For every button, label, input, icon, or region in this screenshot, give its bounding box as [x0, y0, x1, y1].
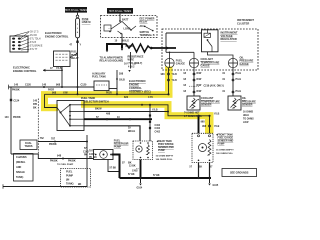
highlight fuel-gauge circuit yellow band S1 — [41, 91, 173, 98]
svg-text:P/LG: P/LG — [236, 72, 242, 75]
relay right contact — [145, 27, 153, 31]
svg-text:BK: BK — [94, 157, 98, 159]
svg-text:298: 298 — [119, 73, 124, 76]
svg-text:Y/W: Y/W — [63, 92, 68, 95]
svg-text:PK/BK: PK/BK — [13, 116, 21, 119]
svg-text:TANK): TANK) — [16, 176, 23, 179]
wire pump bottom loop — [108, 160, 119, 172]
svg-text:PUMP: PUMP — [158, 149, 165, 152]
svg-text:C402: C402 — [155, 127, 161, 130]
power label HOT AT ALL TIMES (right) — [107, 8, 133, 14]
wire stub bus to S1 — [77, 87, 79, 94]
highlight yellow band S2 selector switch output — [81, 101, 172, 108]
svg-text:TO FUEL PUMP: TO FUEL PUMP — [57, 164, 74, 166]
svg-text:RELAY (GASOLINE): RELAY (GASOLINE) — [100, 60, 124, 63]
label box DUAL TANKS — [20, 140, 37, 150]
svg-text:PK/BK: PK/BK — [49, 143, 57, 146]
svg-text:C124: C124 — [13, 99, 19, 102]
ground G105 — [209, 178, 211, 183]
svg-text:C402: C402 — [132, 170, 138, 173]
svg-text:140: 140 — [33, 99, 38, 102]
svg-text:968: 968 — [56, 84, 61, 87]
svg-text:SINGLE: SINGLE — [16, 171, 25, 174]
svg-text:SEE GROUNDS: SEE GROUNDS — [230, 172, 249, 175]
svg-text:BK: BK — [128, 161, 132, 164]
svg-text:822: 822 — [124, 96, 129, 99]
svg-text:A16: A16 — [140, 25, 145, 28]
svg-text:ENGINE CONTROL: ENGINE CONTROL — [45, 35, 69, 39]
see grounds box — [222, 169, 257, 177]
svg-text:TERMINAL B: TERMINAL B — [140, 34, 155, 37]
svg-text:O/LB: O/LB — [119, 79, 125, 82]
fuse link M body — [76, 18, 80, 38]
svg-text:787: 787 — [51, 137, 56, 140]
svg-text:RELAY: RELAY — [71, 57, 79, 60]
svg-text:16 OHMS EMPTY: 16 OHMS EMPTY — [156, 156, 174, 158]
bold rear sender ground drop — [140, 160, 142, 179]
svg-text:948: 948 — [57, 154, 62, 157]
rear tank sender dashed box — [133, 141, 153, 160]
svg-text:74 OHMS HOT: 74 OHMS HOT — [184, 111, 200, 114]
svg-text:BK/W: BK/W — [95, 108, 102, 111]
svg-text:GAUGE: GAUGE — [240, 63, 250, 66]
wire fuel gauge to yellow circuit — [168, 68, 170, 95]
wire to EEC assembly with arrow — [130, 52, 132, 69]
fuel tank selector switch box — [57, 101, 84, 131]
bold wire yellow junction to front sender — [198, 116, 200, 134]
svg-text:ENGINE CONTROL: ENGINE CONTROL — [13, 69, 37, 73]
svg-text:ENGINE: ENGINE — [129, 83, 139, 87]
svg-text:C402: C402 — [155, 124, 161, 127]
bold ground bus — [120, 177, 212, 179]
svg-text:R/W: R/W — [197, 78, 202, 81]
label REAR TANK FUEL GAUGE SENDER AND PUMP — [157, 140, 159, 142]
wire A dual tanks to pump — [38, 141, 87, 143]
fuel gauge — [165, 58, 174, 67]
svg-text:PUMP: PUMP — [66, 175, 73, 178]
wire 47 to EEC with arrow — [43, 69, 62, 71]
wire drop S2 to rear sender right terminal — [149, 105, 151, 141]
resistance wire bold zigzag — [122, 44, 150, 52]
svg-text:PUMP: PUMP — [114, 146, 122, 149]
svg-text:Y/LB: Y/LB — [172, 74, 178, 76]
coolant temperature sender box — [187, 96, 200, 110]
svg-text:13 BK: 13 BK — [129, 165, 136, 167]
svg-text:16 OHMS EMPTY: 16 OHMS EMPTY — [216, 150, 234, 152]
svg-text:C120: C120 — [25, 84, 31, 87]
svg-text:BK: BK — [78, 184, 82, 186]
label FRONT TANK FUEL GAUGE SENDER AND PUMP — [216, 134, 218, 136]
bus wire 140 P/OR — [9, 86, 95, 88]
svg-text:GAUGE: GAUGE — [176, 63, 186, 66]
svg-text:LOAD: LOAD — [124, 28, 131, 31]
svg-text:R/W: R/W — [197, 72, 202, 75]
svg-text:REGULATOR: REGULATOR — [221, 37, 237, 41]
svg-text:P/OR: P/OR — [106, 93, 112, 95]
svg-text:BK/LG: BK/LG — [128, 131, 135, 133]
fuel pump relay switch contact — [70, 54, 77, 58]
instrument voltage regulator box — [202, 30, 219, 52]
bold branch to alarm power relay — [107, 44, 122, 50]
svg-text:57 BK: 57 BK — [153, 175, 160, 177]
svg-text:ASSEMBLY (EEC): ASSEMBLY (EEC) — [129, 89, 151, 93]
svg-text:LINK M: LINK M — [82, 21, 91, 24]
svg-text:TANK): TANK) — [66, 183, 74, 186]
front tank sender dashed box — [192, 133, 213, 162]
svg-text:GAUGE: GAUGE — [201, 64, 211, 67]
wire aux box to pump feed vertical — [109, 88, 117, 90]
wire left leg down to switch — [45, 94, 58, 107]
svg-text:Y/LB: Y/LB — [56, 67, 62, 70]
svg-text:ELECTRONIC: ELECTRONIC — [13, 65, 30, 69]
svg-text:FUEL: FUEL — [71, 52, 78, 54]
selector switch contacts — [69, 104, 71, 126]
svg-text:C402: C402 — [89, 153, 95, 156]
wire yellow vertical to front sender — [209, 116, 211, 134]
svg-text:LB: LB — [133, 62, 136, 65]
highlight yellow vertical to front tank sender — [205, 112, 214, 133]
wire dual tanks option drop — [37, 99, 39, 155]
svg-text:TANKS: TANKS — [24, 145, 32, 148]
svg-text:Y/LB: Y/LB — [214, 126, 220, 128]
svg-text:160 OHMS FULL: 160 OHMS FULL — [216, 153, 234, 155]
relay coil box — [104, 25, 111, 31]
wire relay output down — [121, 34, 123, 45]
wire coolant gauge to sender — [193, 68, 195, 96]
long vertical wire to ground bus — [86, 135, 88, 187]
svg-text:STL TT: STL TT — [30, 49, 38, 51]
svg-text:BATT: BATT — [122, 18, 129, 21]
svg-text:C143: C143 — [83, 150, 89, 153]
svg-text:57 BK: 57 BK — [128, 174, 135, 176]
svg-text:4 16 2: 4 16 2 — [128, 66, 135, 69]
wire bottom-left horizontal — [11, 154, 94, 159]
wire oil gauge to sender — [232, 68, 234, 96]
svg-text:PK/BK: PK/BK — [12, 88, 20, 91]
svg-text:HOT AT ALL TIMES: HOT AT ALL TIMES — [65, 8, 88, 12]
highlight yellow left leg to selector switch — [41, 91, 48, 108]
bold wire to fuel gauge with flow arrows — [150, 47, 176, 49]
EEC power relay dashed box — [101, 16, 158, 38]
highlight yellow leg from fuel gauge — [165, 67, 173, 96]
svg-text:BK/LG: BK/LG — [122, 40, 130, 43]
wire row to rear sender left terminal — [84, 126, 140, 141]
svg-text:R/W: R/W — [197, 84, 202, 87]
svg-text:TO OHMS: TO OHMS — [243, 118, 254, 120]
svg-text:ELECTRONIC: ELECTRONIC — [129, 79, 146, 83]
svg-text:160 OHMS FULL: 160 OHMS FULL — [156, 159, 174, 161]
svg-text:(DIESEL: (DIESEL — [16, 161, 26, 164]
fuel reservoir pump box — [94, 150, 114, 160]
svg-text:762: 762 — [40, 138, 45, 140]
svg-text:STL TDLH: STL TDLH — [30, 39, 41, 41]
svg-text:498: 498 — [106, 113, 111, 116]
oil pressure sender box — [228, 96, 241, 110]
fuel pump in tank dashed box — [61, 169, 91, 188]
svg-text:C402: C402 — [155, 131, 161, 134]
wire relay output to bus — [61, 67, 63, 88]
power label HOT AT ALL TIMES (left) — [65, 7, 87, 13]
svg-text:140: 140 — [14, 84, 19, 87]
svg-text:CHASSIS: CHASSIS — [16, 156, 27, 159]
connector note C218 AUX ONLY — [189, 85, 199, 87]
svg-text:SELECTOR SWITCH: SELECTOR SWITCH — [84, 99, 109, 103]
wire from hot feed to fuse link — [77, 13, 79, 16]
front sender ground drops — [198, 163, 200, 179]
svg-text:4N OR: 4N OR — [30, 35, 37, 37]
svg-text:57 BK: 57 BK — [110, 167, 117, 169]
svg-text:INSTRUMENT: INSTRUMENT — [237, 18, 254, 22]
svg-text:BK: BK — [199, 166, 203, 168]
svg-text:PUMP: PUMP — [71, 55, 78, 57]
svg-text:P/LG: P/LG — [236, 78, 242, 81]
bold wire pump to ground bus — [112, 155, 120, 179]
svg-text:PUMP: PUMP — [218, 143, 225, 146]
svg-text:C218 (AUX. ONLY): C218 (AUX. ONLY) — [204, 85, 224, 88]
fuse link M terminal — [76, 15, 79, 18]
wire fuse link down to bus — [77, 38, 79, 87]
connector C110 pin leader line top — [13, 32, 29, 36]
connector C110 block — [10, 36, 28, 52]
svg-text:SENDER: SENDER — [242, 103, 253, 106]
svg-text:CONTROL: CONTROL — [129, 86, 142, 90]
svg-text:G105: G105 — [213, 185, 219, 187]
yellow vertical labels 968 Y/LB — [209, 125, 211, 127]
wire switch output 498 — [84, 111, 168, 113]
svg-text:Y/LB: Y/LB — [172, 80, 178, 82]
svg-text:INSTRUMENT: INSTRUMENT — [221, 30, 238, 34]
svg-text:AND: AND — [16, 166, 21, 169]
wire S1 fuel gauge feed — [45, 93, 169, 95]
svg-text:C120: C120 — [81, 84, 87, 87]
coolant temperature gauge — [189, 58, 198, 67]
svg-text:HOT AT ALL TIMES: HOT AT ALL TIMES — [109, 9, 132, 13]
svg-text:BK: BK — [33, 107, 37, 110]
svg-text:16 OHMS: 16 OHMS — [243, 112, 254, 114]
bold branch arrow down BK/LG — [121, 44, 123, 49]
svg-text:HIGH: HIGH — [243, 115, 249, 117]
svg-text:P/B: P/B — [33, 103, 37, 106]
fuel pump relay box — [54, 51, 71, 67]
svg-text:140: 140 — [42, 84, 47, 87]
svg-text:ELECTRONIC: ELECTRONIC — [45, 31, 62, 35]
svg-text:P/LG: P/LG — [236, 90, 242, 93]
svg-text:968: 968 — [52, 92, 57, 95]
svg-text:GN 17.5: GN 17.5 — [30, 32, 39, 34]
auxiliary connector box — [94, 81, 109, 91]
svg-text:PK/BK: PK/BK — [68, 160, 76, 163]
cluster feed bus — [166, 32, 202, 34]
svg-text:PK/BK: PK/BK — [50, 160, 58, 163]
wire IVR output to oil gauge — [208, 52, 234, 59]
svg-text:(IN: (IN — [66, 179, 69, 182]
wire S2 switch to front tank — [84, 105, 210, 116]
relay contact arms — [111, 21, 122, 29]
oil pressure gauge — [228, 58, 237, 67]
svg-text:FUEL TANK: FUEL TANK — [81, 96, 95, 100]
svg-text:G104: G104 — [137, 187, 143, 190]
svg-text:RELAY: RELAY — [140, 21, 148, 24]
svg-text:Y/LB: Y/LB — [214, 113, 220, 115]
svg-text:PK: PK — [84, 155, 88, 157]
svg-text:SENDER: SENDER — [201, 103, 212, 106]
svg-text:4 76: 4 76 — [148, 96, 153, 99]
wire hot feed into relay box — [119, 14, 121, 21]
svg-text:FUEL: FUEL — [66, 171, 73, 174]
ground G104 — [140, 178, 142, 183]
svg-text:VOLTAGE: VOLTAGE — [221, 34, 233, 38]
svg-text:STL BRAKE: STL BRAKE — [30, 45, 43, 48]
svg-text:CLUSTER: CLUSTER — [237, 22, 249, 26]
bottom left ground bus — [3, 186, 87, 188]
bold wire switch output row — [84, 118, 152, 120]
svg-text:STL B: STL B — [30, 42, 37, 44]
label box CHASSIS DIESEL AND SINGLE TANK — [14, 154, 34, 182]
left vertical wire 140 — [10, 87, 12, 154]
svg-text:FUEL TANK: FUEL TANK — [92, 76, 106, 79]
svg-text:140: 140 — [5, 116, 10, 119]
vertical wire 298 O/LB — [116, 70, 118, 94]
svg-text:PK: PK — [89, 157, 93, 159]
instrument cluster dashed box — [162, 29, 258, 70]
svg-text:R/W: R/W — [197, 90, 202, 93]
svg-text:LOW: LOW — [243, 122, 249, 124]
